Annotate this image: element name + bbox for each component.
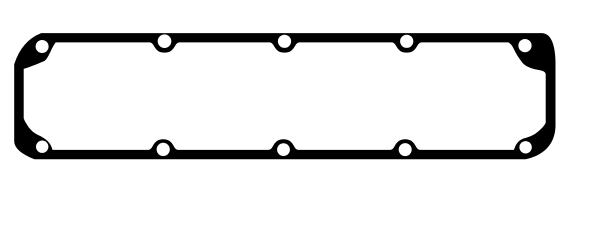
- bolt hole top-left: [36, 40, 49, 53]
- bolt hole bottom 3: [399, 143, 412, 156]
- bolt hole top-right: [518, 39, 531, 52]
- bolt hole top 2: [278, 35, 291, 48]
- bolt hole bottom-left: [36, 141, 48, 153]
- bolt hole bottom 2: [277, 143, 290, 156]
- bolt hole bottom-right: [519, 141, 531, 153]
- bolt hole top 1: [158, 34, 172, 48]
- bolt hole bottom 1: [157, 143, 170, 156]
- bolt hole top 3: [400, 35, 413, 48]
- gasket body outline (valve cover gasket): [14, 33, 555, 159]
